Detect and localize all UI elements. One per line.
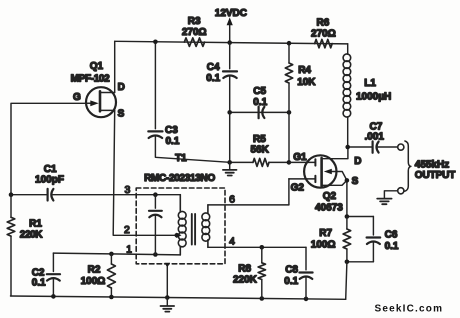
svg-text:100pF: 100pF <box>35 175 64 186</box>
svg-text:1000µH: 1000µH <box>356 92 391 103</box>
capacitor C2 <box>32 253 60 296</box>
svg-text:455kHz: 455kHz <box>415 159 449 170</box>
svg-text:C1: C1 <box>44 164 57 175</box>
svg-text:S: S <box>352 176 359 187</box>
svg-text:SeekIC.com: SeekIC.com <box>375 304 444 315</box>
svg-text:C5: C5 <box>253 86 266 97</box>
svg-text:Q1: Q1 <box>90 61 104 72</box>
svg-text:C8: C8 <box>285 264 298 275</box>
T1 shield ground arrow <box>165 263 171 298</box>
svg-text:R8: R8 <box>238 263 251 274</box>
ground at C5/R5 node <box>223 162 237 175</box>
node pin 3 <box>124 184 157 197</box>
svg-text:0.1: 0.1 <box>32 278 46 289</box>
capacitor C7 <box>345 121 397 152</box>
transistor Q2 40673 <box>289 147 362 217</box>
wire Q1 gate line <box>11 103 87 194</box>
wire R7/C6 bottom link <box>345 260 374 265</box>
capacitor C8 <box>284 247 312 299</box>
capacitor C6 <box>367 217 399 262</box>
resistor R5 <box>227 134 291 166</box>
svg-text:0.1: 0.1 <box>385 241 399 252</box>
svg-text:100Ω: 100Ω <box>311 239 336 250</box>
svg-text:OUTPUT: OUTPUT <box>415 170 456 181</box>
svg-text:MPF-102: MPF-102 <box>71 73 110 84</box>
svg-text:T1: T1 <box>175 153 187 164</box>
resistor R6 <box>311 17 336 47</box>
svg-text:G1: G1 <box>293 152 307 163</box>
svg-text:220K: 220K <box>233 274 258 285</box>
svg-text:C4: C4 <box>207 62 220 73</box>
svg-text:270Ω: 270Ω <box>182 27 207 38</box>
output terminal upper <box>398 144 404 150</box>
svg-text:R4: R4 <box>298 65 311 76</box>
svg-text:G: G <box>73 92 81 103</box>
svg-text:D: D <box>354 156 361 167</box>
svg-text:RMC-202313NO: RMC-202313NO <box>144 173 215 184</box>
svg-text:40673: 40673 <box>315 203 343 214</box>
capacitor C5 <box>253 86 267 118</box>
wire R7/C6 top link <box>345 214 374 219</box>
svg-text:100Ω: 100Ω <box>81 276 106 287</box>
transformer core <box>192 214 195 245</box>
svg-text:220K: 220K <box>20 230 43 241</box>
node 12VDC supply <box>215 8 247 45</box>
node pin 1 <box>126 243 158 256</box>
inductor T1 secondary <box>202 205 210 247</box>
capacitor C3 <box>148 40 229 163</box>
wire G2 to pin 6 <box>288 179 290 205</box>
resistor R1 <box>7 195 43 296</box>
inductor T1 primary <box>178 195 186 255</box>
wire pin-1 bias line <box>53 252 180 257</box>
wire pin 4 line <box>208 245 306 250</box>
svg-text:0.1: 0.1 <box>284 276 298 287</box>
ground at output <box>377 191 397 204</box>
svg-text:270Ω: 270Ω <box>311 29 336 40</box>
wire Q1 source to pin 2 <box>113 110 176 235</box>
resistor R8 <box>233 247 266 298</box>
wire C5 column to G1 node <box>230 112 289 162</box>
svg-text:R7: R7 <box>319 228 332 239</box>
svg-text:R2: R2 <box>88 265 101 276</box>
svg-text:4: 4 <box>229 236 235 248</box>
wire C5 link <box>227 110 291 115</box>
svg-text:6: 6 <box>229 194 235 206</box>
svg-text:R3: R3 <box>188 16 201 27</box>
output brace and label <box>405 141 455 191</box>
svg-text:G2: G2 <box>291 182 305 193</box>
resistor R3 <box>182 16 207 46</box>
svg-text:C6: C6 <box>385 230 398 241</box>
svg-text:S: S <box>118 108 125 119</box>
capacitor inside T1 <box>149 195 162 255</box>
svg-text:0.1: 0.1 <box>166 136 180 147</box>
wire top supply rail <box>115 41 348 44</box>
wire right rail riser <box>346 262 347 300</box>
tap arrow on primary <box>175 233 182 238</box>
svg-text:.001: .001 <box>364 131 384 142</box>
svg-text:R1: R1 <box>29 219 42 230</box>
svg-text:10K: 10K <box>297 77 316 88</box>
svg-text:C3: C3 <box>165 125 178 136</box>
ground at bottom rail <box>161 298 175 312</box>
transformer T1 shield box <box>136 153 225 264</box>
svg-text:2: 2 <box>124 224 130 236</box>
svg-text:Q2: Q2 <box>323 191 337 202</box>
resistor R4 <box>285 41 316 113</box>
svg-text:12VDC: 12VDC <box>215 8 247 19</box>
wire Q1 drain to rail <box>114 41 116 92</box>
svg-text:0.1: 0.1 <box>206 73 220 84</box>
wire pin 6 line <box>208 204 289 206</box>
transistor Q1 MPF-102 <box>71 61 125 119</box>
svg-text:56K: 56K <box>251 144 270 155</box>
svg-text:3: 3 <box>124 184 130 196</box>
resistor R7 <box>311 217 351 262</box>
resistor R2 <box>81 254 116 297</box>
inductor L1 <box>343 44 391 147</box>
wire bottom ground rail <box>11 294 346 301</box>
svg-text:1: 1 <box>126 243 132 255</box>
capacitor C1 <box>9 164 181 201</box>
svg-text:R6: R6 <box>317 17 330 28</box>
svg-text:D: D <box>118 82 125 93</box>
output terminal lower <box>398 188 404 194</box>
svg-text:R5: R5 <box>253 134 266 145</box>
svg-text:0.1: 0.1 <box>253 97 267 108</box>
svg-text:L1: L1 <box>364 78 376 89</box>
capacitor C4 <box>206 43 237 113</box>
